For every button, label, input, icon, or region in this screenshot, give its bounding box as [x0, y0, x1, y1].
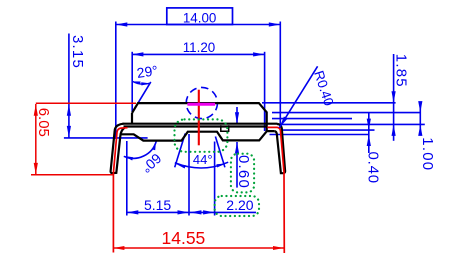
svg-text:3.15: 3.15	[69, 35, 86, 69]
svg-text:5.15: 5.15	[144, 197, 171, 213]
svg-text:0.60: 0.60	[235, 155, 252, 189]
svg-text:11.20: 11.20	[183, 40, 216, 55]
svg-text:0.40: 0.40	[365, 152, 382, 184]
svg-text:1.00: 1.00	[419, 137, 436, 171]
svg-text:29°: 29°	[136, 62, 159, 81]
svg-text:2.20: 2.20	[226, 197, 253, 213]
svg-text:14.55: 14.55	[162, 228, 206, 248]
svg-text:6.05: 6.05	[35, 108, 52, 137]
svg-text:1.85: 1.85	[392, 54, 409, 88]
svg-text:44°: 44°	[193, 152, 213, 167]
svg-text:14.00: 14.00	[183, 11, 217, 26]
